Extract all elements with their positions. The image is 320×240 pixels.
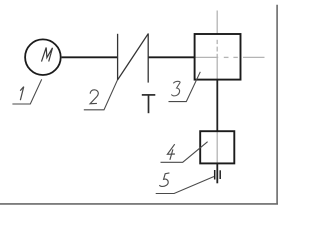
label 1 [20, 87, 24, 101]
leader 5 [156, 177, 214, 194]
coupling right bar [147, 33, 149, 82]
support T below coupling [142, 95, 156, 113]
label 5 [160, 173, 170, 187]
anchor stroke right [219, 170, 221, 179]
label 3 [172, 81, 180, 96]
border bottom [0, 203, 278, 205]
border right [276, 5, 278, 205]
shaft line coupling to box 3 [148, 56, 194, 58]
box unit 3 [195, 34, 241, 80]
leader 1 [12, 79, 41, 104]
leader 4 [161, 142, 208, 163]
connector below box 4 [216, 163, 218, 183]
motor circle (item 1) [25, 39, 61, 75]
vertical centerline [216, 11, 218, 164]
anchor stroke left (item 5) [214, 170, 216, 180]
leader 3 [169, 72, 201, 102]
shaft line motor to coupling [62, 56, 118, 58]
horizontal centerline [195, 56, 264, 58]
coupling diagonal [117, 34, 148, 81]
label 2 [90, 90, 98, 104]
connector box 3 to box 4 [216, 80, 218, 132]
coupling left bar (item 2) [117, 34, 119, 80]
label 4 [167, 144, 175, 160]
motor letter M [42, 48, 53, 62]
leader 2 [84, 80, 118, 110]
box unit 4 [200, 131, 234, 163]
